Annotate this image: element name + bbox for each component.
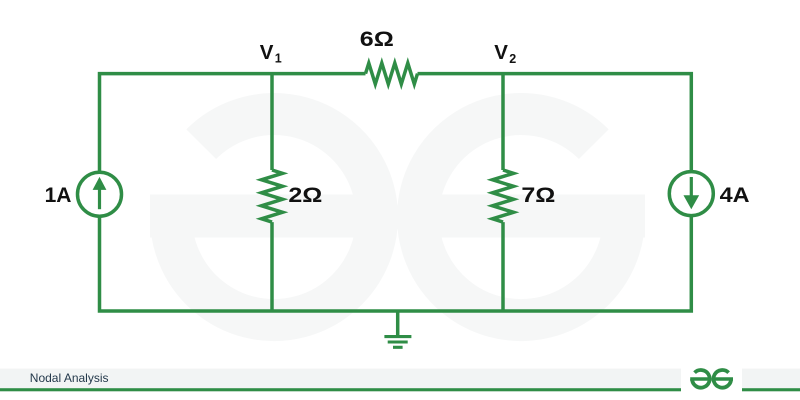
footer green rule [0, 388, 681, 391]
svg-text:2: 2 [509, 52, 516, 66]
current source 4A arrow [684, 177, 698, 208]
svg-text:V: V [260, 41, 274, 64]
wire: V1 branch lower [270, 222, 274, 311]
node V2 [494, 41, 516, 66]
node V1 [260, 41, 282, 66]
svg-text:6Ω: 6Ω [360, 27, 394, 51]
svg-text:1: 1 [275, 52, 282, 66]
ground [384, 337, 411, 348]
current source 1A arrow [93, 177, 107, 209]
svg-text:7Ω: 7Ω [521, 183, 555, 207]
svg-text:2Ω: 2Ω [288, 183, 322, 207]
current source 1A circle [78, 172, 122, 216]
wire: V2 branch lower [501, 222, 505, 311]
svg-text:Nodal Analysis: Nodal Analysis [30, 371, 109, 385]
footer GeeksforGeeks logo [690, 370, 733, 388]
resistor 2ohm [262, 170, 283, 222]
footer band [0, 369, 681, 389]
wire: bottom bus + lower rails [100, 216, 692, 311]
svg-text:V: V [494, 41, 508, 64]
resistor 6ohm [366, 63, 418, 84]
wire: top-left (left rail top + top bus to node V1) [100, 74, 366, 173]
wire: V1 branch upper [270, 74, 274, 170]
svg-text:1A: 1A [45, 184, 72, 207]
current source 4A circle [669, 172, 713, 216]
svg-text:4A: 4A [720, 184, 750, 207]
resistor 7ohm [493, 170, 514, 222]
wire: V2 branch upper [501, 74, 505, 170]
wire: ground stem [396, 311, 400, 335]
watermark GeeksforGeeks logo [150, 114, 645, 320]
wire: top-right (top bus from resistor to right rail top) [418, 74, 692, 172]
